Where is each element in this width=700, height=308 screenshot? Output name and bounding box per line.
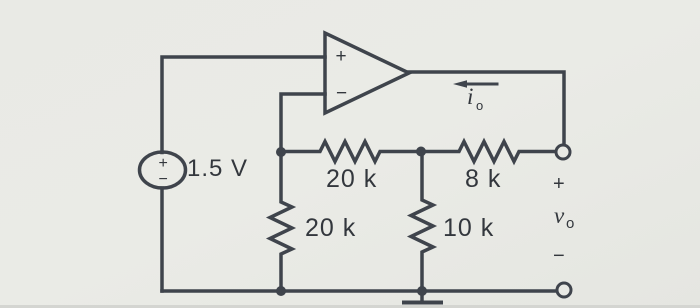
- svg-text:i: i: [467, 84, 473, 109]
- svg-text:−: −: [336, 83, 347, 104]
- svg-text:20 k: 20 k: [305, 214, 356, 242]
- svg-text:v: v: [554, 203, 565, 228]
- svg-text:+: +: [553, 173, 565, 195]
- svg-text:20 k: 20 k: [326, 165, 377, 193]
- svg-text:1.5 V: 1.5 V: [187, 155, 248, 182]
- svg-text:o: o: [566, 215, 574, 232]
- svg-text:8 k: 8 k: [465, 165, 501, 193]
- svg-text:o: o: [476, 98, 483, 113]
- svg-text:+: +: [336, 46, 347, 67]
- svg-text:−: −: [159, 171, 168, 188]
- svg-text:−: −: [553, 245, 565, 267]
- svg-text:+: +: [159, 155, 168, 172]
- svg-text:10 k: 10 k: [443, 214, 494, 242]
